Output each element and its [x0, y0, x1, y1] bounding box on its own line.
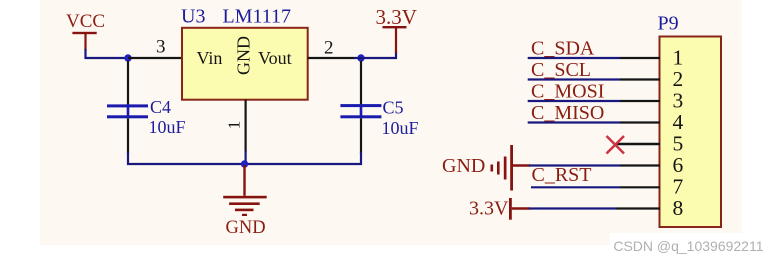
junction node VCC/C4: [124, 54, 131, 61]
junction node 3.3V/C5: [357, 54, 364, 61]
svg-text:CSDN @q_1039692211: CSDN @q_1039692211: [613, 238, 763, 254]
C4 value 10uF: [149, 117, 186, 137]
svg-text:1: 1: [225, 121, 244, 130]
pin number 2: [324, 38, 334, 59]
pin number 6: [673, 153, 684, 177]
svg-text:C_SCL: C_SCL: [531, 59, 591, 81]
svg-text:Vout: Vout: [258, 48, 292, 68]
net label C_SCL: [531, 59, 591, 81]
svg-text:5: 5: [673, 132, 684, 156]
wire net C_MISO: [528, 121, 660, 123]
pin number 2: [673, 67, 684, 91]
C5 value 10uF: [382, 118, 419, 138]
pin number 8: [673, 196, 684, 220]
wire C4 to ground rail: [128, 152, 245, 164]
wire GND to pin 6: [529, 164, 660, 166]
pin name GND (rotated): [234, 36, 254, 75]
svg-text:4: 4: [673, 110, 684, 134]
wire junction to 3.3V port: [354, 51, 396, 58]
svg-text:GND: GND: [226, 218, 266, 238]
wire net C_SCL: [528, 78, 660, 80]
connector P9 body: [660, 37, 722, 228]
net label C_SDA: [531, 38, 595, 60]
svg-text:C_SDA: C_SDA: [531, 38, 595, 60]
pin number 7: [673, 175, 684, 199]
op-amp U3 designator: [181, 6, 205, 28]
svg-text:GND: GND: [234, 36, 254, 75]
wire 3.3V to pin 8: [529, 207, 660, 209]
svg-text:10uF: 10uF: [382, 118, 419, 138]
svg-text:1: 1: [673, 46, 684, 70]
capacitor C4: [107, 61, 148, 153]
svg-text:U3: U3: [181, 6, 205, 28]
power port VCC: [66, 11, 105, 50]
U3 value LM1117: [223, 6, 292, 28]
svg-text:3: 3: [673, 89, 684, 113]
pin 5 stub: [617, 143, 660, 145]
pin number 1: [673, 46, 684, 70]
junction node ground rail: [241, 160, 248, 167]
connector P9 designator: [658, 13, 679, 35]
svg-text:C_MISO: C_MISO: [531, 102, 604, 124]
svg-text:P9: P9: [658, 13, 679, 35]
svg-text:C_MOSI: C_MOSI: [531, 81, 604, 103]
svg-text:LM1117: LM1117: [223, 6, 292, 28]
svg-text:3.3V: 3.3V: [376, 5, 417, 29]
svg-text:VCC: VCC: [66, 11, 105, 32]
wire C5 to ground rail: [245, 152, 362, 164]
svg-text:3.3V: 3.3V: [469, 198, 509, 220]
svg-text:10uF: 10uF: [149, 117, 186, 137]
pin number 3: [156, 37, 166, 58]
C5 designator: [383, 98, 404, 118]
wire U3 GND pin: [245, 100, 247, 164]
pin name Vin: [197, 48, 223, 68]
net label C_MISO: [531, 102, 604, 124]
watermark: [613, 238, 763, 254]
svg-text:8: 8: [673, 196, 684, 220]
power port GND (pin 6): [442, 145, 530, 191]
net label C_RST: [532, 164, 592, 186]
ground GND (regulator): [223, 165, 267, 238]
wire VCC to pin3: [86, 49, 129, 58]
C4 designator: [150, 97, 171, 117]
wire U3 pin 2 stub: [308, 57, 354, 59]
pin number 5: [673, 132, 684, 156]
pin number 4: [673, 110, 684, 134]
svg-text:C5: C5: [383, 98, 404, 118]
pin number 3: [673, 89, 684, 113]
svg-text:C_RST: C_RST: [532, 164, 592, 186]
pin name Vout: [258, 48, 292, 68]
svg-text:3: 3: [156, 37, 166, 58]
svg-text:6: 6: [673, 153, 684, 177]
svg-text:GND: GND: [442, 155, 485, 177]
wire net C_RST: [531, 186, 660, 188]
svg-text:2: 2: [324, 38, 334, 59]
svg-text:7: 7: [673, 175, 684, 199]
svg-text:C4: C4: [150, 97, 171, 117]
capacitor C5: [340, 61, 381, 153]
no-ERC marker pin 5: [607, 136, 625, 154]
svg-text:Vin: Vin: [197, 48, 223, 68]
wire junction to U3 pin 3: [128, 57, 182, 59]
net label C_MOSI: [531, 81, 604, 103]
pin number 1 (rotated): [225, 121, 244, 130]
power port 3.3V (pin 8): [469, 198, 530, 220]
power port 3.3V: [376, 5, 417, 53]
svg-text:2: 2: [673, 67, 684, 91]
wire net C_SDA: [528, 57, 660, 59]
regulator U3 LM1117 body: [182, 28, 308, 100]
wire net C_MOSI: [528, 100, 660, 102]
